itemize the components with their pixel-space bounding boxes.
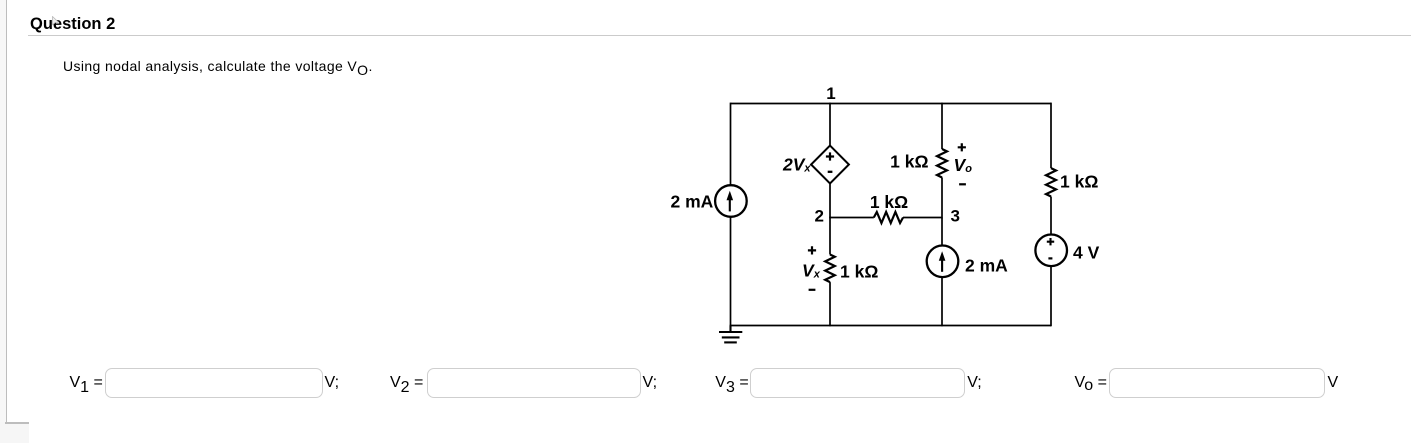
input box Vo bbox=[1109, 368, 1325, 397]
bottom border stub bbox=[5, 422, 29, 424]
svg-text:1 kΩ: 1 kΩ bbox=[1060, 172, 1098, 192]
plus mark in diamond bbox=[826, 152, 834, 160]
wire R1 to node3 bbox=[903, 217, 942, 219]
resistor R1 1k horizontal bbox=[874, 212, 903, 223]
resistor R2 1k vertical (Vx) bbox=[825, 255, 835, 283]
wire bottom rail bbox=[730, 325, 1051, 327]
svg-text:2 mA: 2 mA bbox=[965, 256, 1008, 276]
resistor R3 1k vertical (Vo) bbox=[937, 149, 947, 177]
svg-text:1 kΩ: 1 kΩ bbox=[840, 262, 878, 282]
input box V3 bbox=[750, 368, 965, 397]
wire right upper bbox=[1050, 103, 1052, 169]
suffix V; bbox=[325, 374, 340, 392]
bottom-left gray corner patch bbox=[0, 422, 29, 443]
wire V1 to bottom bbox=[1050, 266, 1052, 326]
label Vo = bbox=[1075, 374, 1108, 392]
label V3 = bbox=[715, 374, 748, 392]
wire left lower bbox=[730, 217, 732, 326]
minus mark V1 source bbox=[1048, 257, 1052, 259]
svg-text:1: 1 bbox=[826, 84, 835, 103]
circuit schematic svg bbox=[650, 80, 1120, 355]
current source I2 circle bbox=[927, 245, 959, 277]
wire top rail node 1 bbox=[731, 103, 1052, 105]
voltage source V1 circle bbox=[1035, 235, 1067, 267]
svg-text:1 kΩ: 1 kΩ bbox=[890, 152, 928, 172]
suffix V; bbox=[967, 374, 982, 392]
suffix V bbox=[1328, 374, 1339, 392]
label V1 = bbox=[70, 374, 103, 392]
svg-text:4 V: 4 V bbox=[1073, 243, 1100, 263]
wire diamond to node 2 bbox=[829, 183, 831, 218]
svg-text:2Vx: 2Vx bbox=[782, 155, 811, 175]
svg-text:3: 3 bbox=[951, 207, 960, 226]
dependent source E1 diamond 2Vx bbox=[811, 146, 849, 184]
current source I2 arrow bbox=[941, 259, 943, 271]
ground bbox=[719, 326, 742, 343]
svg-text:2 mA: 2 mA bbox=[671, 192, 714, 212]
heading bbox=[30, 15, 115, 34]
current source I1 arrow bbox=[729, 199, 731, 211]
plus mark Vo bbox=[958, 143, 966, 151]
svg-text:1 kΩ: 1 kΩ bbox=[870, 192, 908, 212]
wire node1 stem to dependent source bbox=[829, 103, 831, 146]
wire R4 to V1 source bbox=[1050, 197, 1052, 235]
wire node1 to R3 bbox=[941, 103, 943, 149]
left gray strip bbox=[0, 0, 6, 423]
question text bbox=[63, 58, 373, 74]
svg-text:2: 2 bbox=[815, 207, 824, 226]
left border bbox=[6, 0, 8, 423]
minus mark in diamond bbox=[828, 171, 833, 173]
plus mark V1 source bbox=[1047, 238, 1054, 245]
current source I1 circle bbox=[715, 185, 747, 217]
suffix V; bbox=[643, 374, 658, 392]
heading underline bbox=[28, 35, 1411, 36]
wire R2 to bottom bbox=[829, 282, 831, 326]
wire left upper bbox=[730, 103, 732, 186]
resistor R4 1k vertical right bbox=[1046, 168, 1056, 196]
wire node2 to R1 bbox=[830, 217, 874, 219]
wire node2 to R2 bbox=[829, 217, 831, 255]
input box V2 bbox=[427, 368, 641, 397]
plus mark Vx bbox=[808, 246, 816, 254]
svg-text:Vo: Vo bbox=[954, 155, 973, 175]
cursor artifact bbox=[52, 16, 62, 28]
wire R3 to node3 bbox=[941, 177, 943, 218]
minus mark Vo bbox=[959, 183, 966, 185]
wire I2 to bottom bbox=[941, 277, 943, 326]
svg-text:Vx: Vx bbox=[802, 261, 821, 281]
minus mark Vx bbox=[809, 289, 816, 291]
input box V1 bbox=[105, 368, 323, 397]
wire node3 to I2 bbox=[941, 218, 943, 246]
label V2 = bbox=[390, 374, 423, 392]
